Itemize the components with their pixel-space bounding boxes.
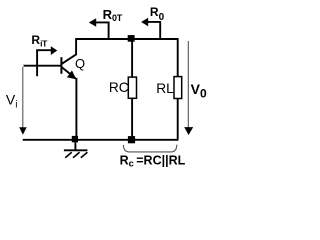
wire: bottom bus	[23, 139, 179, 141]
transistor Q collector diagonal	[62, 54, 77, 64]
svg-text:Rc =RC||RL: Rc =RC||RL	[120, 154, 186, 169]
svg-text:Q: Q	[75, 56, 85, 71]
wire: RL bottom lead	[177, 99, 179, 140]
arrow R0T vertical+horizontal with left arrowhead	[89, 18, 109, 38]
arrow V0 output voltage	[184, 41, 193, 135]
arrow R0 vertical+horizontal with left arrowhead	[141, 18, 160, 39]
wire: RC bottom lead	[131, 99, 133, 140]
transistor Q emitter diagonal	[62, 67, 76, 78]
resistor RC box	[128, 77, 136, 98]
wire: top bus from collector to RL	[76, 38, 178, 40]
svg-text:RL: RL	[156, 81, 174, 96]
node: junction square on top bus at RC	[128, 35, 135, 42]
svg-text:R0T: R0T	[103, 7, 123, 23]
wire: base wire	[24, 65, 61, 67]
node: junction square on bottom bus at RC	[128, 136, 135, 143]
resistor RL box	[174, 77, 182, 99]
svg-text:R0: R0	[150, 5, 165, 23]
transistor Q base bar	[60, 57, 62, 74]
arrow Vi input voltage	[19, 67, 27, 135]
wire: RL top lead	[177, 38, 179, 77]
brace under RC and RL	[123, 145, 176, 152]
wire: RC top lead	[131, 40, 133, 77]
wire: emitter vertical down to bottom bus	[75, 78, 77, 139]
svg-text:RiT: RiT	[31, 33, 48, 48]
svg-text:Vi: Vi	[6, 92, 18, 111]
transistor Q emitter arrowhead	[68, 71, 76, 78]
ground symbol	[64, 142, 88, 158]
node: emitter/ground junction square	[72, 136, 78, 142]
arrow RiT (input resistance looking into base)	[37, 46, 57, 76]
svg-text:RC: RC	[109, 80, 129, 95]
svg-text:V0: V0	[191, 81, 207, 101]
wire: collector vertical	[75, 38, 77, 55]
